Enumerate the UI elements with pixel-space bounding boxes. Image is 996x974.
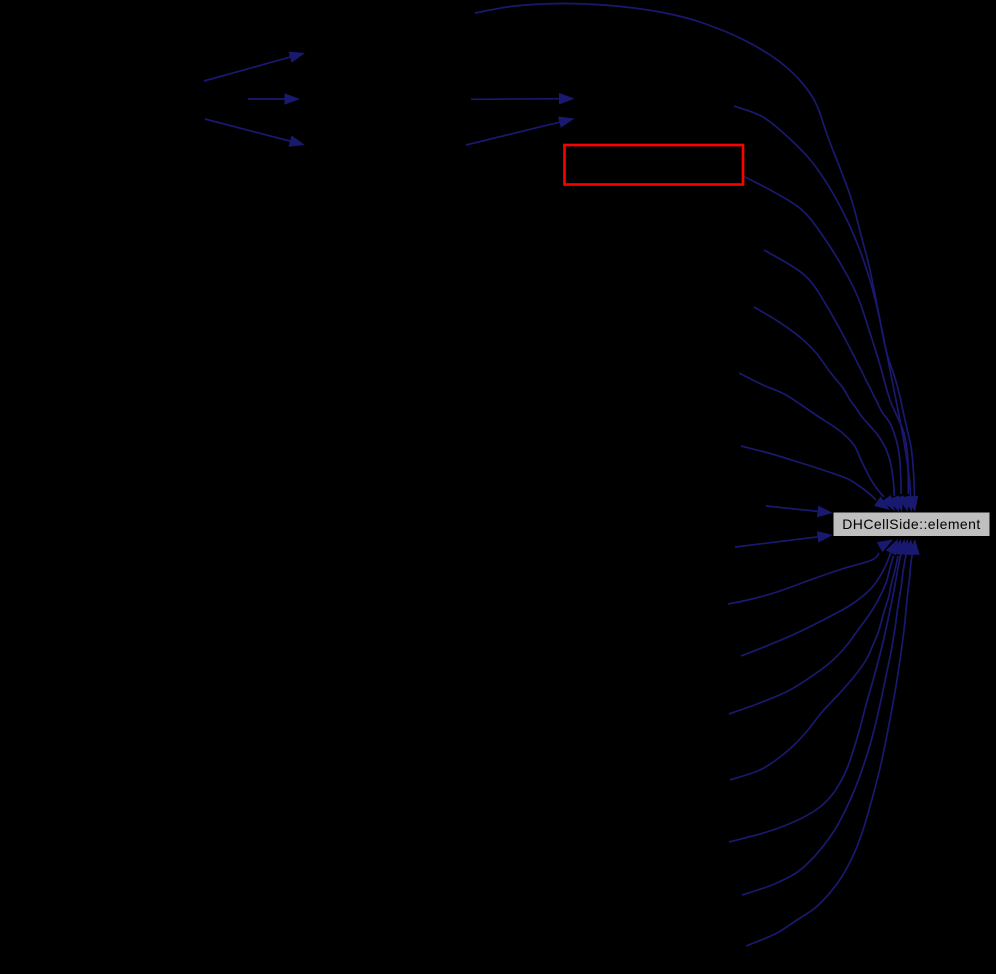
svg-text:DHCellSide::element: DHCellSide::element xyxy=(842,516,981,532)
